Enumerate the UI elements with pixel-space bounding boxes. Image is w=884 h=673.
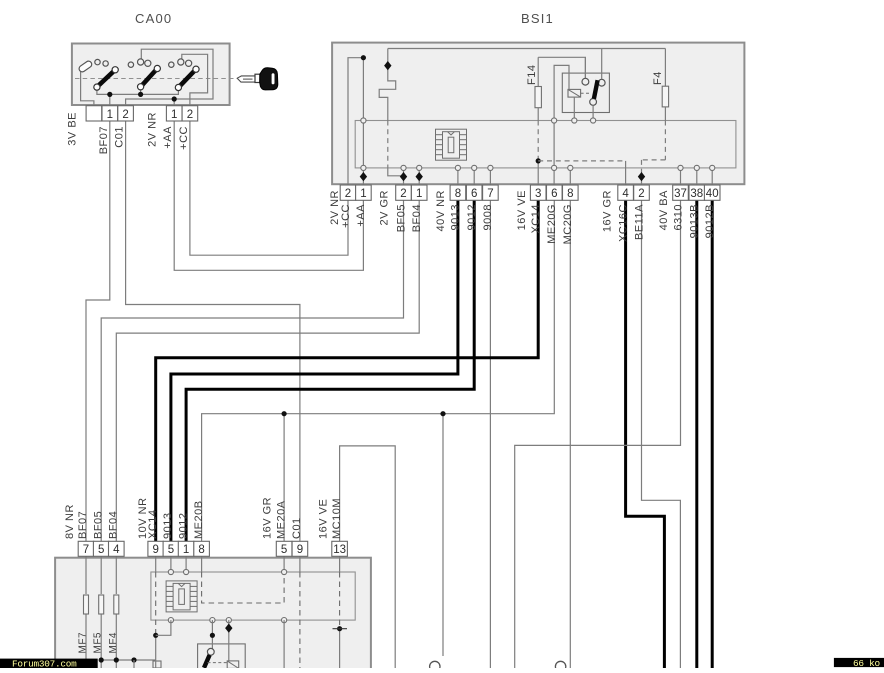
svg-text:1: 1 [416, 188, 422, 200]
svg-text:2V GR: 2V GR [379, 190, 391, 226]
svg-text:40V BA: 40V BA [658, 190, 670, 230]
svg-text:9012B: 9012B [704, 204, 716, 238]
svg-text:9013B: 9013B [689, 204, 701, 238]
svg-text:MF7: MF7 [78, 632, 89, 654]
svg-text:2V NR: 2V NR [147, 112, 159, 147]
svg-text:38: 38 [690, 188, 703, 200]
svg-text:9012: 9012 [177, 513, 189, 539]
svg-text:8: 8 [198, 544, 204, 556]
svg-text:XC16C: XC16C [617, 204, 629, 242]
svg-text:7: 7 [487, 188, 493, 200]
svg-text:ME20B: ME20B [193, 500, 205, 539]
svg-text:C01: C01 [114, 126, 126, 148]
svg-text:BF05: BF05 [92, 511, 104, 539]
svg-text:2V NR: 2V NR [329, 190, 341, 225]
svg-text:4: 4 [622, 188, 629, 200]
svg-text:BSI1: BSI1 [521, 11, 554, 26]
svg-text:3V BE: 3V BE [67, 112, 79, 146]
svg-text:3: 3 [535, 188, 541, 200]
svg-text:XC14: XC14 [530, 204, 542, 234]
svg-text:9: 9 [297, 544, 303, 556]
svg-text:8: 8 [567, 188, 573, 200]
svg-text:8V NR: 8V NR [64, 504, 76, 539]
svg-text:7: 7 [83, 544, 89, 556]
svg-text:+CC: +CC [178, 126, 190, 150]
svg-text:BF05: BF05 [395, 204, 407, 232]
svg-text:+CC: +CC [340, 204, 352, 228]
svg-text:16V VE: 16V VE [516, 190, 528, 230]
svg-text:6: 6 [551, 188, 557, 200]
svg-text:CA00: CA00 [135, 11, 172, 26]
svg-text:4: 4 [113, 544, 120, 556]
svg-text:9013: 9013 [450, 204, 462, 230]
svg-text:BF04: BF04 [411, 204, 423, 232]
svg-text:Forum307.com: Forum307.com [12, 659, 77, 669]
svg-text:+AA: +AA [162, 126, 174, 149]
svg-text:5: 5 [281, 544, 287, 556]
svg-text:37: 37 [674, 188, 687, 200]
svg-text:BF04: BF04 [108, 511, 120, 539]
svg-text:9: 9 [152, 544, 158, 556]
svg-text:ME20G: ME20G [546, 204, 558, 244]
svg-text:2: 2 [638, 188, 644, 200]
svg-text:13: 13 [333, 544, 346, 556]
svg-text:MC20G: MC20G [562, 204, 574, 244]
svg-text:2: 2 [345, 188, 351, 200]
svg-text:MF5: MF5 [93, 632, 104, 654]
svg-text:1: 1 [107, 109, 113, 121]
svg-text:MC10M: MC10M [331, 498, 343, 539]
svg-text:16V VE: 16V VE [318, 499, 330, 539]
svg-text:6310: 6310 [672, 204, 684, 230]
svg-text:2: 2 [187, 109, 193, 121]
svg-text:ME20A: ME20A [275, 500, 287, 539]
svg-text:10V NR: 10V NR [137, 497, 149, 539]
svg-text:9008: 9008 [482, 204, 494, 230]
svg-text:+AA: +AA [355, 204, 367, 227]
svg-text:2: 2 [400, 188, 406, 200]
svg-text:1: 1 [183, 544, 189, 556]
svg-text:1: 1 [171, 109, 177, 121]
svg-text:BE11A: BE11A [633, 204, 645, 240]
svg-text:9013: 9013 [162, 513, 174, 539]
svg-text:F4: F4 [652, 71, 664, 85]
svg-text:5: 5 [168, 544, 174, 556]
svg-text:40: 40 [706, 188, 719, 200]
svg-text:5: 5 [98, 544, 104, 556]
svg-text:40V NR: 40V NR [435, 190, 447, 232]
svg-text:9012: 9012 [466, 204, 478, 230]
svg-text:16V GR: 16V GR [602, 190, 614, 232]
svg-text:16V GR: 16V GR [262, 497, 274, 539]
svg-text:C01: C01 [291, 517, 303, 539]
svg-text:MF4: MF4 [108, 632, 119, 654]
svg-text:1: 1 [360, 188, 366, 200]
svg-text:8: 8 [455, 188, 461, 200]
svg-text:BF07: BF07 [77, 511, 89, 539]
svg-text:6: 6 [471, 188, 477, 200]
svg-text:66 ko: 66 ko [853, 658, 881, 668]
svg-text:BF07: BF07 [98, 126, 110, 154]
svg-text:F14: F14 [526, 65, 538, 85]
svg-text:2: 2 [122, 109, 128, 121]
